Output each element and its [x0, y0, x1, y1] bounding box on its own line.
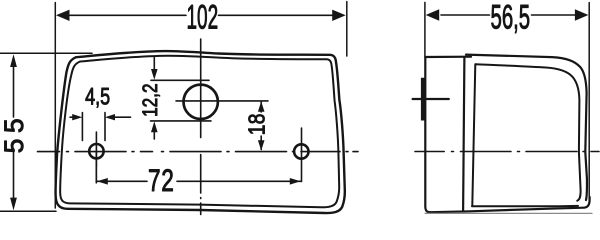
dimension 55: bottom extension line [0, 210, 56, 212]
circle horizontal centerline [176, 100, 268, 102]
big circle (lamp opening) [184, 85, 218, 119]
mounting hole left vertical centerline [95, 132, 97, 183]
dimension 102: dimension line with arrowheads [70, 14, 332, 16]
main horizontal centerline (hole axis, front view) [38, 151, 359, 153]
side view: base front vertical line [463, 57, 464, 212]
dimension 55: top extension line [0, 52, 92, 54]
mounting hole left [89, 144, 103, 158]
svg-text:4,5: 4,5 [85, 84, 110, 110]
side view: outer contour [425, 57, 589, 212]
body outline inner lens edge (front view) [60, 56, 339, 208]
mounting hole right [294, 144, 308, 158]
dimension 102: left extension line [54, 3, 56, 209]
side view: lens outer contour [466, 55, 587, 200]
dimension 55: arrowheads [10, 54, 17, 210]
side view: lens inner vertical line [472, 64, 475, 206]
dimension 56,5: left extension line [424, 2, 426, 56]
dimension 4,5: left arrow [70, 116, 78, 118]
svg-text:102: 102 [186, 0, 218, 36]
side view: mounting tab (black) [421, 78, 426, 121]
dimension 56,5: arrowheads [426, 9, 589, 20]
circle vertical centerline [200, 39, 202, 215]
mounting hole right vertical centerline [301, 128, 303, 182]
dimension 18: dimension line [260, 102, 262, 150]
dimension 12,2: lower tangent line [151, 120, 212, 122]
svg-text:56,5: 56,5 [490, 0, 530, 37]
dimension 12,2: lower arrow [153, 131, 155, 139]
side view: lens inner bottom line [472, 205, 578, 207]
svg-text:55: 55 [0, 113, 29, 153]
side view: centerline [415, 151, 599, 153]
dimension 72: arrowheads [97, 178, 301, 185]
dimension 12,2: upper arrow [153, 58, 155, 71]
dimension 102: right extension line [346, 2, 348, 57]
dimension 55: dimension line [13, 62, 15, 202]
dimension 72: dimension line [96, 152, 301, 183]
dimension 56,5: dimension line [441, 14, 575, 16]
dimension 18: arrowheads [258, 101, 265, 150]
side view: tab cross line [413, 98, 449, 100]
side view: base top edge [425, 56, 471, 58]
dimension 12,2: upper tangent line [151, 79, 209, 81]
svg-text:18: 18 [244, 113, 270, 135]
dimension 56,5: right extension line [588, 3, 590, 203]
dimension 4,5: edge stub lines [82, 113, 105, 141]
side view: faint base line [425, 212, 592, 214]
side view: lens inner contour [476, 64, 581, 201]
svg-text:72: 72 [148, 162, 175, 198]
body outline outer (front view) [56, 51, 345, 213]
svg-text:12,2: 12,2 [138, 83, 162, 116]
dimension 4,5: right arrow [112, 116, 131, 118]
